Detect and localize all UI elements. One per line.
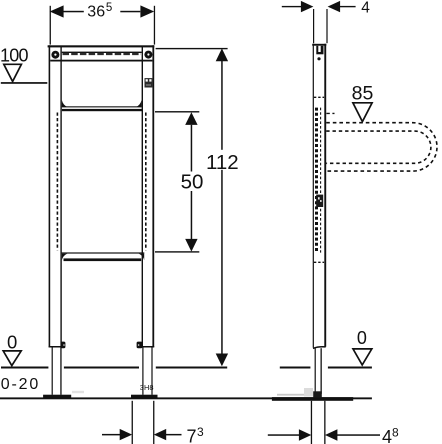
dim 4 arrow right-pointing [301, 1, 314, 12]
svg-text:7: 7 [187, 427, 197, 444]
dim 50 arrow up [185, 112, 197, 125]
svg-text:112: 112 [206, 151, 239, 174]
finished floor line 0 [1, 367, 48, 369]
crossbar 2 hook right [139, 254, 145, 261]
dim 50 line [191, 125, 193, 172]
side label icon [316, 195, 323, 207]
left rail inner edge [60, 47, 61, 347]
left rail bottom cap [49, 346, 62, 348]
cistern bottom thin line [62, 106, 142, 107]
cistern corner wedge right [136, 100, 142, 107]
side hidden dashed strip thick [315, 108, 318, 253]
frame top edge [48, 45, 155, 47]
faint smudge near side plate [277, 394, 308, 396]
right rail hidden dashed line [145, 113, 147, 251]
dim 7.3 arrow lines [102, 434, 120, 436]
side column bottom cap [313, 347, 326, 349]
dim 36.5 extension line right [154, 6, 155, 45]
bolt circle left [51, 51, 59, 59]
top bar bottom line [50, 60, 152, 62]
right foot plate [131, 395, 158, 398]
svg-text:36: 36 [87, 4, 105, 21]
faint marks near left plate [72, 391, 84, 393]
left foot tube [52, 347, 53, 395]
svg-text:4: 4 [382, 427, 392, 444]
svg-text:3: 3 [197, 425, 204, 439]
side foot plate [272, 397, 353, 401]
side hidden dashed strip thin [320, 108, 322, 253]
side wall bracket [316, 46, 323, 55]
dim 4 arrow left-pointing [328, 1, 341, 12]
right rail clamp notch [137, 342, 143, 349]
dim 36.5 arrow left [50, 5, 64, 17]
dim 36.5 line [63, 11, 84, 13]
svg-text:0: 0 [357, 328, 367, 348]
side bolt dot [317, 57, 320, 60]
side column top edge [312, 44, 326, 46]
crossbar 1 thick line [62, 109, 143, 111]
drain pipe outer dashed outline [326, 123, 437, 171]
cistern corner wedge left [62, 100, 68, 107]
dim 112 line [221, 61, 223, 150]
dim 4.8 arrow right-pointing [299, 429, 311, 440]
crossbar 2 hook left [62, 254, 68, 261]
svg-text:85: 85 [352, 82, 374, 104]
crossbar 2 thin line [62, 252, 145, 253]
right rail inner edge [142, 47, 143, 347]
dim 4 extension lines [313, 9, 314, 43]
side dashed separator upper [314, 96, 324, 98]
svg-text:3H8: 3H8 [140, 383, 154, 392]
dim 4.8 arrow left-pointing [325, 429, 337, 440]
dim 36.5 arrow right [140, 5, 154, 17]
dim 7.3 arrow right-pointing [120, 429, 132, 440]
dim 4 line [282, 6, 302, 7]
dim 112 arrow up [216, 48, 228, 61]
side dashed separator lower [314, 261, 324, 263]
svg-text:50: 50 [181, 170, 204, 193]
side foot tube [315, 348, 316, 394]
label icon on right rail [145, 78, 153, 87]
side column left edge [313, 44, 314, 348]
dim 7.3 arrow left-pointing [154, 429, 166, 440]
dim 4.8 arrow lines [268, 434, 300, 436]
svg-text:5: 5 [106, 2, 112, 14]
bolt circle right [144, 51, 152, 59]
dim 112 arrow down [216, 354, 228, 367]
crossbar 2 thick line [64, 258, 142, 261]
svg-text:0: 0 [7, 331, 17, 352]
left foot plate [43, 395, 71, 398]
dim 112 top extension line [156, 48, 228, 49]
dim 50 arrow down [185, 239, 197, 252]
svg-text:4: 4 [361, 0, 370, 16]
drain pipe inner dashed outline [326, 131, 431, 163]
side column right edge [324, 44, 326, 347]
raw floor line 0-20 [0, 397, 372, 399]
svg-text:8: 8 [392, 426, 399, 440]
right rail outer edge [152, 45, 154, 347]
right rail bottom cap [140, 346, 154, 348]
left rail clamp notch [61, 342, 66, 349]
svg-text:0-20: 0-20 [1, 376, 39, 393]
top bar perforation band [63, 53, 142, 55]
dim 7.3 extension lines [132, 401, 133, 444]
dim 36.5 extension line left [50, 6, 51, 45]
svg-text:100: 100 [0, 46, 29, 66]
left rail hidden dashed line [56, 113, 58, 251]
dim 50 top extension line [155, 111, 199, 112]
left rail outer edge [49, 45, 51, 347]
dim 4.8 extension lines [311, 401, 312, 444]
pipe stub dashes [326, 112, 334, 114]
top bar inner top line [62, 52, 142, 53]
right foot tube [142, 347, 143, 395]
dim 50 bottom extension line [155, 251, 199, 252]
